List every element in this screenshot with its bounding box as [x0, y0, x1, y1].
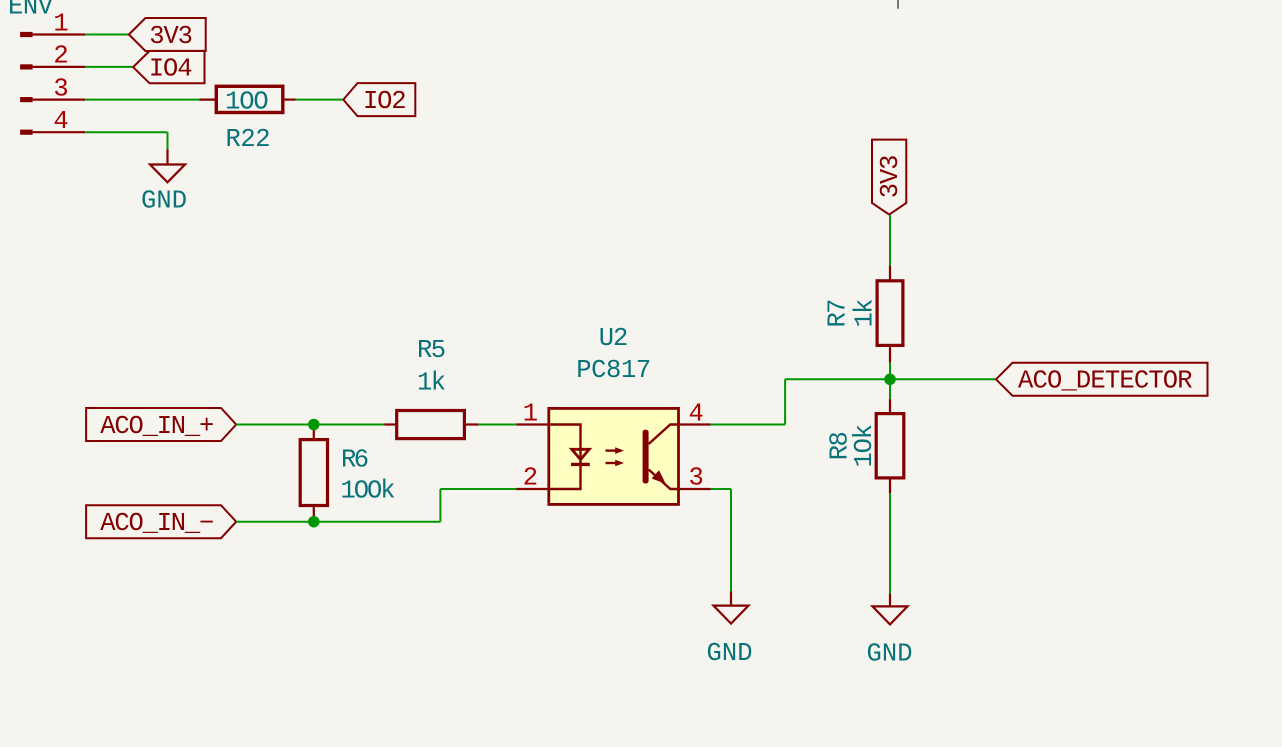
- wire pin2 to IO4: [85, 66, 132, 68]
- svg-text:1OOk: 1OOk: [341, 476, 396, 505]
- connector J ENV reference: [8, 0, 54, 21]
- U2 pin number 2: [523, 464, 538, 493]
- U2 reference: [599, 324, 629, 353]
- svg-text:ACO_IN_+: ACO_IN_+: [100, 412, 214, 441]
- svg-text:ACO_DETECTOR: ACO_DETECTOR: [1018, 367, 1193, 396]
- wire pin3 to R22: [85, 99, 199, 101]
- wire ACO_IN_- horizontal: [236, 521, 440, 523]
- wire to U2 pin 2: [440, 488, 516, 490]
- resistor R5 pin 2: [464, 423, 478, 425]
- connector pin 1: [20, 32, 85, 37]
- U2 LED cathode wire: [549, 464, 581, 489]
- U2 light arrow 1: [606, 447, 625, 454]
- svg-text:R22: R22: [226, 125, 271, 154]
- resistor R22 value 100: [225, 88, 269, 117]
- U2 pin number 3: [689, 464, 704, 493]
- wire 3V3 to R7: [889, 215, 891, 266]
- U2 phototransistor base bar: [643, 430, 649, 484]
- svg-text:1Ok: 1Ok: [850, 424, 879, 468]
- U2 LED anode wire: [549, 425, 581, 465]
- U2 pin number 4: [689, 399, 704, 428]
- resistor R5 pin 1: [384, 423, 397, 425]
- svg-text:R5: R5: [417, 336, 446, 365]
- resistor R8 pin 2: [889, 478, 891, 493]
- pin number 3: [53, 74, 68, 103]
- resistor R5 reference: [417, 336, 446, 365]
- svg-text:3: 3: [689, 464, 704, 493]
- svg-text:4: 4: [689, 399, 704, 428]
- svg-text:GND: GND: [867, 639, 913, 668]
- svg-text:1: 1: [53, 9, 68, 38]
- resistor R8 value 10k: [850, 424, 879, 468]
- ground symbol triangle (connector): [150, 165, 185, 183]
- svg-text:3V3: 3V3: [876, 155, 905, 199]
- U2 value PC817: [576, 356, 651, 385]
- wire up from pin4: [784, 379, 786, 424]
- U2 LED triangle: [572, 449, 589, 459]
- resistor R8 reference: [826, 431, 855, 460]
- resistor R7 body: [877, 281, 903, 346]
- svg-text:PC817: PC817: [576, 356, 651, 385]
- resistor R6 value 100k: [341, 476, 396, 505]
- U2 pin number 1: [523, 399, 538, 428]
- resistor R6 pin 1: [313, 425, 315, 440]
- svg-text:2: 2: [53, 42, 68, 71]
- resistor R22 body: [216, 86, 282, 112]
- ground GND text (R8): [867, 639, 913, 668]
- ground GND text (connector): [141, 187, 187, 216]
- ground symbol pin (U2): [730, 591, 732, 605]
- wire U2 pin3 right: [711, 488, 731, 490]
- hierarchical label ACO_DETECTOR: [996, 363, 1208, 396]
- junction at R6 top: [308, 419, 320, 431]
- hierarchical label IO4: [133, 51, 204, 84]
- U2 LED cathode bar: [571, 463, 590, 466]
- wire to ACO_DETECTOR: [785, 378, 996, 380]
- svg-text:ACO_IN_−: ACO_IN_−: [100, 509, 214, 538]
- resistor R22 pin 2: [283, 98, 295, 100]
- hierarchical label ACO_IN_-: [86, 505, 236, 538]
- wire up to U2 pin 2: [439, 489, 441, 522]
- svg-text:1k: 1k: [417, 369, 446, 398]
- resistor R6 reference: [341, 446, 369, 475]
- U2 pin 3: [679, 488, 711, 490]
- connector pin 3: [20, 97, 85, 102]
- svg-text:ENV: ENV: [8, 0, 54, 21]
- ground symbol triangle (R8): [873, 606, 908, 624]
- pin number 4: [53, 107, 68, 136]
- wire U2 pin4 right: [711, 424, 786, 426]
- hierarchical label 3V3 (power rail): [872, 140, 906, 215]
- ground symbol pin (connector): [166, 149, 168, 164]
- resistor R7 pin 2: [889, 345, 891, 362]
- wire R5 to U2 pin 1: [479, 424, 517, 426]
- resistor R7 value 1k: [851, 299, 880, 328]
- U2 phototransistor collector: [649, 425, 679, 445]
- U2 pin 4: [679, 423, 711, 425]
- resistor R7 pin 1: [889, 265, 891, 280]
- U2 pin 2: [516, 488, 548, 490]
- svg-text:1OO: 1OO: [225, 88, 269, 117]
- resistor R5 body: [397, 411, 465, 439]
- svg-text:1: 1: [523, 399, 538, 428]
- wire R7 to junction: [889, 363, 891, 400]
- resistor R22 pin 1: [199, 98, 216, 100]
- wire pin4 horizontal: [85, 131, 167, 133]
- wire ACO_IN_+ to R5: [236, 424, 384, 426]
- svg-text:IO4: IO4: [149, 54, 193, 83]
- svg-text:4: 4: [53, 107, 68, 136]
- svg-text:1k: 1k: [851, 299, 880, 328]
- hierarchical label 3V3: [129, 18, 206, 51]
- resistor R8 body: [876, 414, 904, 478]
- svg-text:GND: GND: [141, 187, 187, 216]
- resistor R5 value 1k: [417, 369, 446, 398]
- U2 light arrow 2: [606, 460, 625, 467]
- junction at R6 bottom: [308, 516, 320, 528]
- optocoupler U2 body: [549, 408, 679, 504]
- resistor R8 pin 1: [889, 399, 891, 413]
- svg-text:2: 2: [523, 464, 538, 493]
- resistor R7 reference: [824, 299, 853, 328]
- U2 phototransistor emitter: [649, 470, 679, 490]
- wire pin1 to 3V3: [85, 34, 129, 36]
- svg-text:R7: R7: [824, 299, 853, 328]
- ground GND text (U2): [707, 639, 753, 668]
- wire R8 to GND: [889, 493, 891, 594]
- svg-text:U2: U2: [599, 324, 629, 353]
- svg-text:GND: GND: [707, 639, 753, 668]
- sheet border line fragment: [897, 0, 899, 9]
- junction at R7/R8 node: [884, 374, 896, 386]
- wire pin4 vertical: [167, 132, 169, 149]
- connector pin 2: [20, 64, 85, 69]
- ground symbol pin (R8): [889, 594, 891, 607]
- connector pin 4: [20, 130, 85, 135]
- ground symbol triangle (U2): [714, 606, 749, 624]
- pin number 2: [53, 42, 68, 71]
- svg-text:IO2: IO2: [363, 87, 407, 116]
- U2 pin 1: [516, 423, 548, 425]
- resistor R6 pin 2: [313, 506, 315, 522]
- svg-text:3: 3: [53, 74, 68, 103]
- pin number 1: [53, 9, 68, 38]
- wire R22 to IO2: [296, 99, 344, 101]
- svg-text:R6: R6: [341, 446, 369, 475]
- svg-text:3V3: 3V3: [149, 22, 193, 51]
- wire down to GND: [730, 489, 732, 591]
- hierarchical label IO2: [343, 83, 415, 116]
- resistor R6 body: [300, 440, 327, 506]
- hierarchical label ACO_IN_+: [86, 408, 236, 441]
- resistor R22 reference: [226, 125, 271, 154]
